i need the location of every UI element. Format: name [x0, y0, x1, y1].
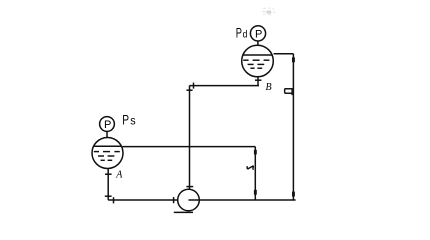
wire: horizontal pipe from node B to corner: [190, 83, 260, 89]
pressure gauge Pd (circle-P above tank B): [250, 26, 265, 46]
svg-text:P: P: [122, 112, 129, 127]
pressure gauge Ps (circle-P above tank A): [100, 117, 115, 138]
dimension text S (rotated): [247, 166, 254, 169]
wire: suction pipe from corner to pump inlet: [108, 197, 178, 203]
svg-text:A: A: [115, 170, 123, 181]
faint scan smudge artifact: [262, 8, 275, 16]
svg-text:P: P: [104, 119, 111, 131]
wire: discharge pipe from pump centre to the right: [189, 199, 296, 201]
label Pd: [236, 26, 248, 41]
svg-text:B: B: [266, 82, 272, 93]
tank A (suction vessel): [92, 138, 123, 169]
wire: vertical pipe from corner down to pump top: [186, 86, 193, 190]
label Ps: [122, 112, 135, 127]
svg-text:P: P: [255, 28, 262, 40]
wire: tank A bottom stub to node A and corner: [105, 168, 112, 200]
svg-text:s: s: [130, 113, 135, 127]
pump P1 (circle with radius discharge line): [174, 189, 200, 212]
wire: tank B bottom stub to node B: [255, 77, 261, 86]
dimension line D (discharge head): [274, 54, 295, 200]
dimension text D (rotated): [285, 89, 293, 95]
tank B (discharge vessel): [242, 45, 274, 77]
svg-text:d: d: [243, 29, 248, 41]
dimension line S (suction head): [123, 147, 257, 200]
svg-text:P: P: [236, 26, 242, 41]
